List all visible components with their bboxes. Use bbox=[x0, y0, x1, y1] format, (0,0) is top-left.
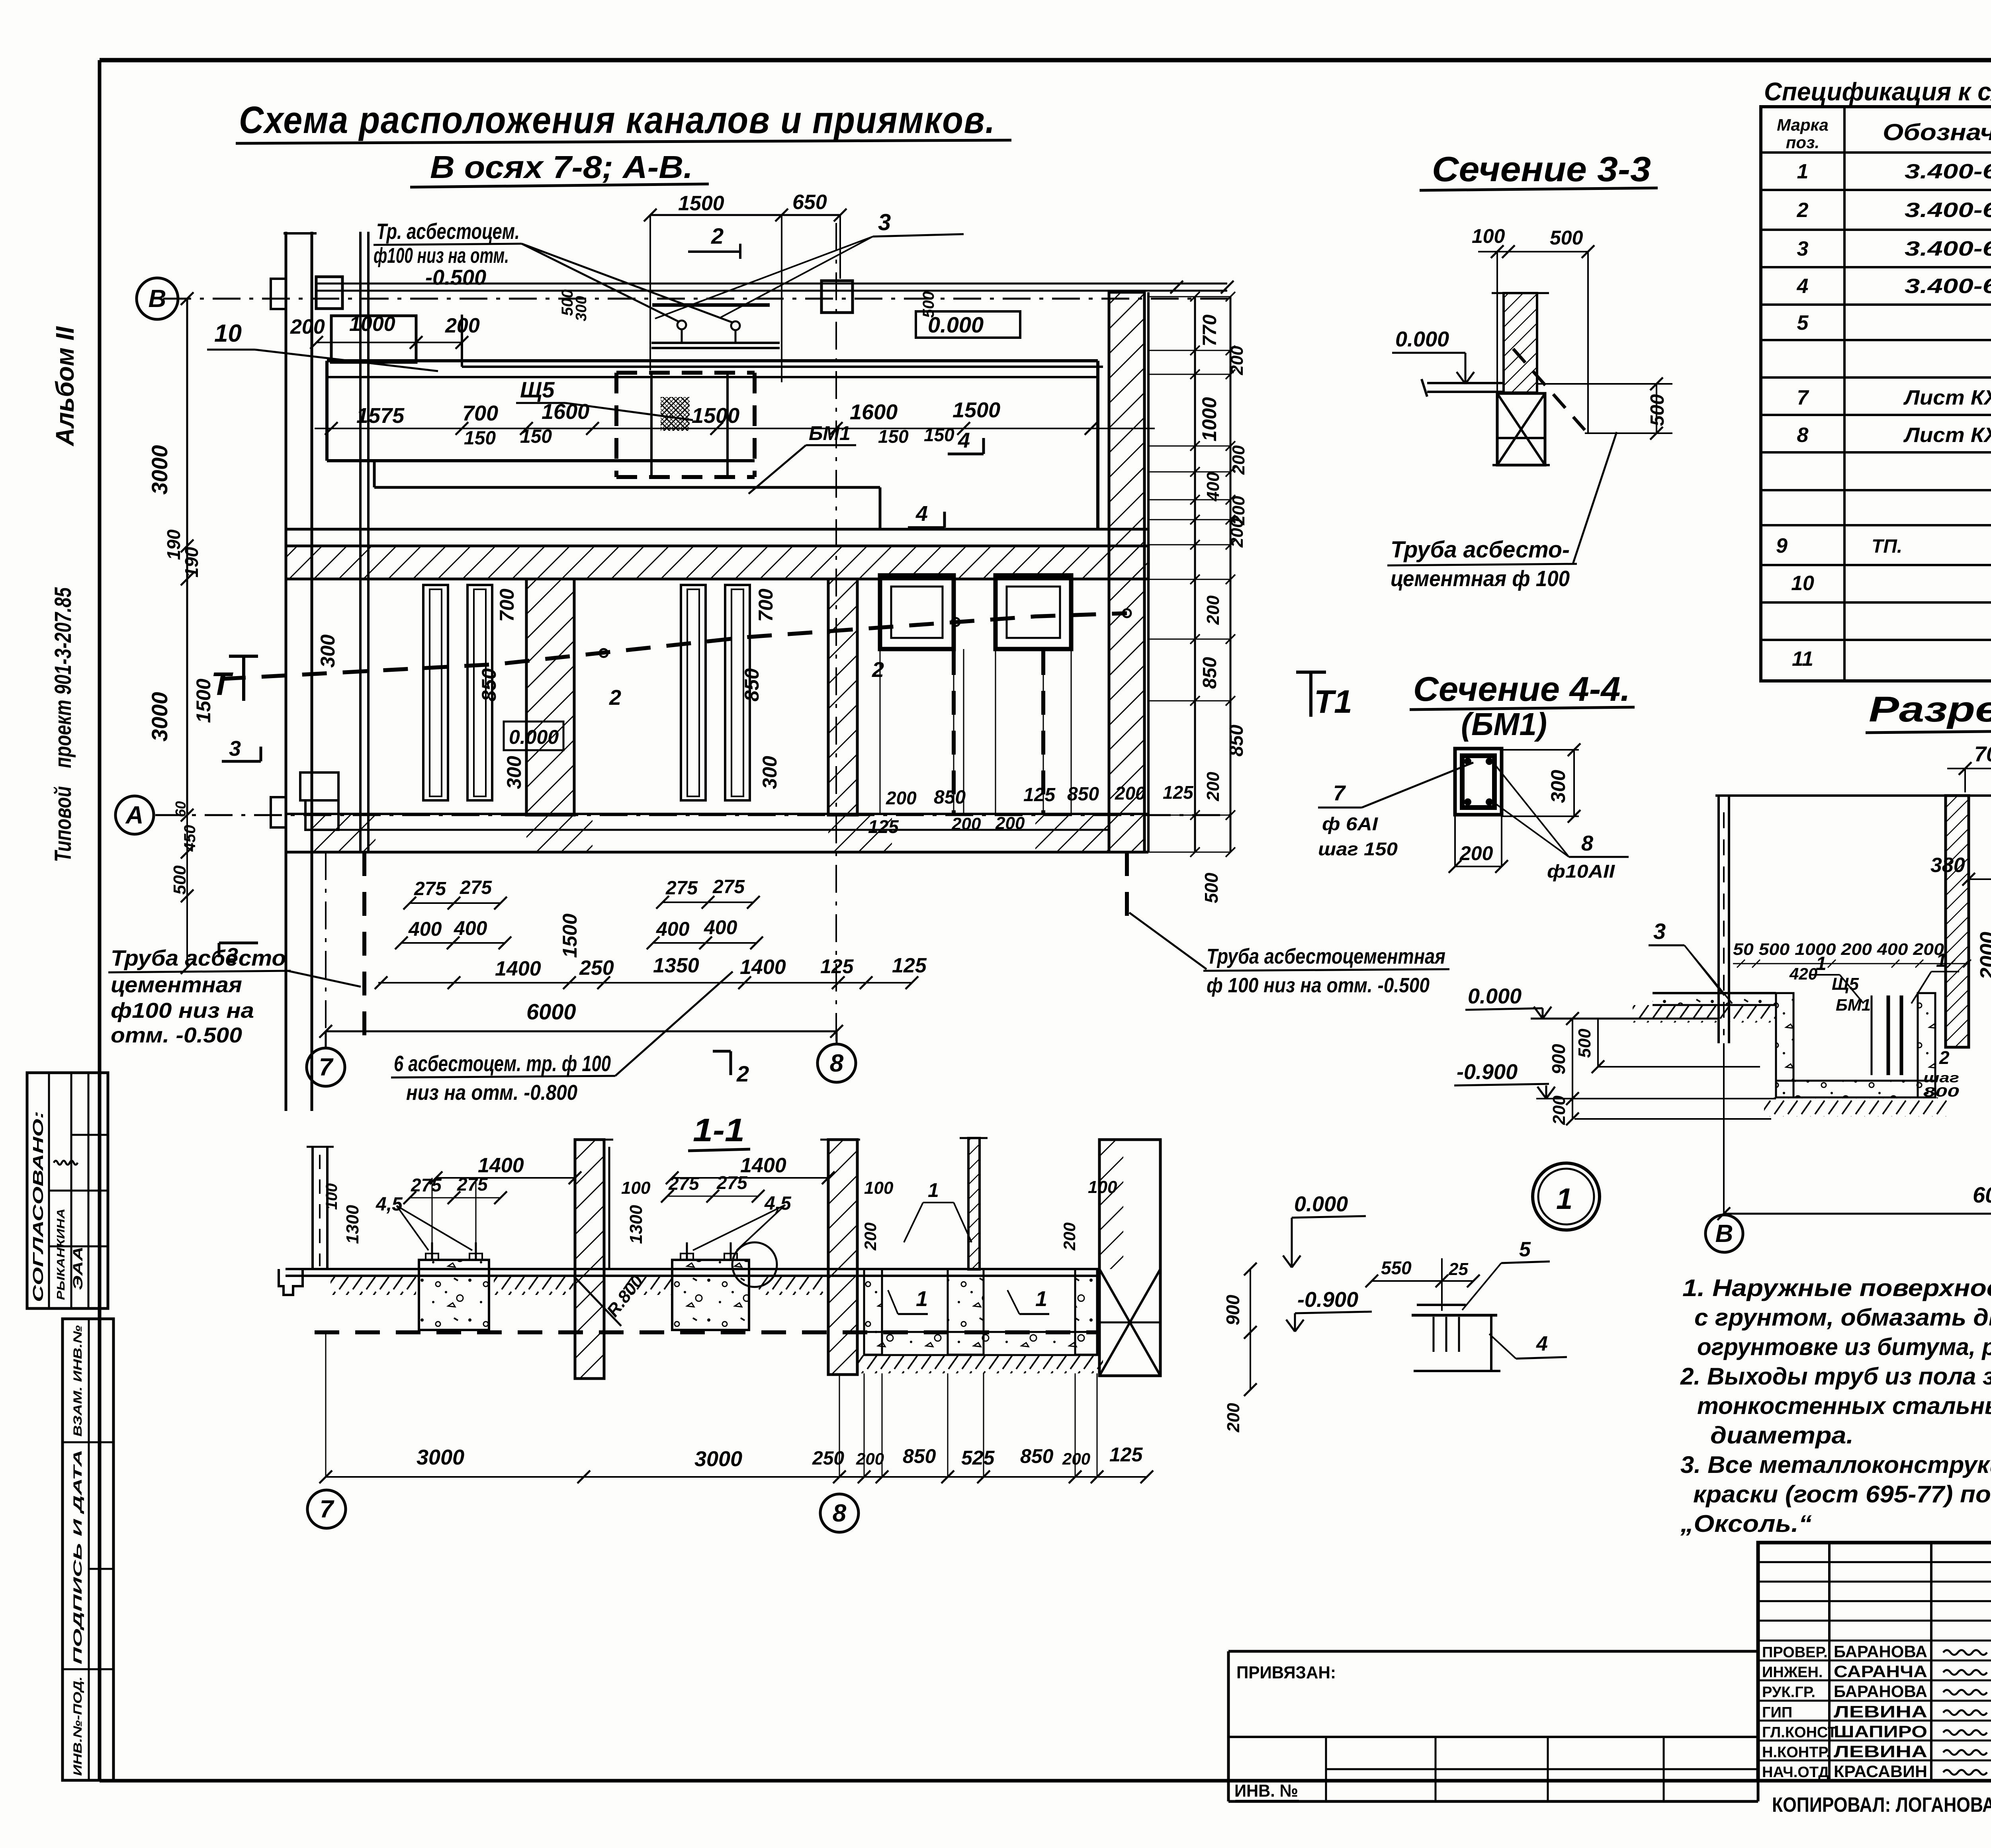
svg-text:СОГЛАСОВАНО:: СОГЛАСОВАНО: bbox=[30, 1111, 46, 1302]
svg-text:200: 200 bbox=[1224, 1403, 1243, 1433]
s11 hatched wall B bbox=[575, 1140, 604, 1379]
svg-text:1500: 1500 bbox=[192, 679, 215, 723]
plan: boxed 0.000 in lower room bbox=[504, 722, 563, 750]
svg-text:ИНВ.№-ПОД.: ИНВ.№-ПОД. bbox=[71, 1676, 84, 1776]
svg-text:700: 700 bbox=[1974, 742, 1991, 766]
svg-text:1: 1 bbox=[916, 1287, 928, 1311]
sec3-3 caption leader bbox=[1573, 432, 1617, 564]
svg-text:ЛЕВИНА: ЛЕВИНА bbox=[1834, 1742, 1927, 1761]
title block outer bbox=[1758, 1543, 1991, 1781]
s11 footing block 1 bbox=[419, 1260, 489, 1330]
s11 ground hatch strips bbox=[331, 1276, 416, 1295]
plan: upper small pit rectangle bbox=[331, 316, 416, 362]
svg-text:Спецификация к схеме расположе: Спецификация к схеме расположения приямк… bbox=[1764, 77, 1991, 106]
svg-text:3000: 3000 bbox=[694, 1447, 742, 1471]
svg-text:500: 500 bbox=[1575, 1029, 1594, 1058]
s11 footing block 2 bbox=[672, 1260, 749, 1330]
svg-text:50 500 1000 200 400 200: 50 500 1000 200 400 200 bbox=[1733, 940, 1944, 958]
svg-text:200: 200 bbox=[290, 315, 325, 338]
svg-text:1350: 1350 bbox=[653, 954, 699, 977]
svg-text:200: 200 bbox=[1060, 1222, 1079, 1251]
svg-text:200: 200 bbox=[1062, 1449, 1090, 1468]
svg-text:10: 10 bbox=[214, 320, 242, 347]
svg-text:450: 450 bbox=[181, 825, 199, 852]
svg-text:2: 2 bbox=[1797, 199, 1809, 222]
plan: pilaster box lower bbox=[305, 800, 338, 830]
title block signature columns bbox=[1828, 1543, 1831, 1781]
plan: interior horizontal wall hatched bbox=[286, 546, 1148, 579]
svg-text:300: 300 bbox=[503, 756, 525, 789]
svg-text:1000: 1000 bbox=[349, 313, 395, 336]
svg-text:отм. -0.500: отм. -0.500 bbox=[111, 1023, 242, 1047]
s11 thin wall D bbox=[968, 1138, 980, 1269]
svg-text:1500: 1500 bbox=[678, 192, 724, 215]
svg-text:700: 700 bbox=[755, 589, 777, 622]
svg-text:ГЛ.КОНСТ: ГЛ.КОНСТ bbox=[1762, 1724, 1837, 1741]
svg-text:150: 150 bbox=[520, 426, 552, 447]
svg-text:3: 3 bbox=[226, 944, 238, 968]
sec4-4 corner bars bbox=[1464, 758, 1471, 765]
plan: pipe right end ticks bbox=[1170, 281, 1183, 293]
plan: right room square pit 1 bbox=[880, 575, 954, 649]
plan: middle dividing wall hatched bbox=[526, 579, 574, 815]
svg-text:400: 400 bbox=[704, 916, 737, 939]
plan: lower-left room channel slots bbox=[423, 585, 448, 800]
svg-text:300: 300 bbox=[317, 634, 339, 668]
svg-text:Обозначение: Обозначение bbox=[1883, 119, 1991, 145]
sec3-3 foundation cross box bbox=[1497, 393, 1545, 465]
svg-text:ЭАА: ЭАА bbox=[70, 1246, 86, 1290]
svg-text:125: 125 bbox=[892, 954, 927, 977]
s11 right vertical dim 900 bbox=[1250, 1269, 1251, 1390]
svg-text:400: 400 bbox=[454, 917, 487, 939]
svg-text:ф10АII: ф10АII bbox=[1547, 861, 1615, 882]
sec3-3 dashed pipe diagonal bbox=[1513, 349, 1585, 430]
svg-text:1575: 1575 bbox=[356, 404, 405, 428]
sheet frame left line bbox=[98, 60, 102, 1781]
svg-text:200: 200 bbox=[951, 814, 981, 834]
svg-text:60: 60 bbox=[172, 801, 189, 817]
plan: vertical ext lines from pits bbox=[880, 649, 881, 814]
plan: bold dashed verticals from pits bbox=[952, 651, 956, 814]
svg-text:8: 8 bbox=[1797, 424, 1809, 447]
svg-text:низ на отм. -0.800: низ на отм. -0.800 bbox=[406, 1081, 577, 1105]
svg-text:1: 1 bbox=[1816, 953, 1827, 974]
svg-text:краски (гост 695-77) по огрунт: краски (гост 695-77) по огрунтовке сурик… bbox=[1693, 1481, 1991, 1508]
sec4-4 beam outline bbox=[1455, 749, 1502, 815]
svg-text:1000: 1000 bbox=[1198, 397, 1220, 441]
svg-text:200: 200 bbox=[1459, 842, 1493, 864]
svg-text:Типовой проект 901-3-207.85: Типовой проект 901-3-207.85 bbox=[50, 587, 76, 862]
svg-text:500: 500 bbox=[1647, 394, 1668, 426]
svg-text:цементная ф 100: цементная ф 100 bbox=[1391, 566, 1570, 591]
svg-text:огрунтовке из битума, растворе: огрунтовке из битума, растворенного в бе… bbox=[1697, 1334, 1991, 1360]
plan: trench dashed polyline bbox=[221, 613, 1127, 679]
svg-text:ШАПИРО: ШАПИРО bbox=[1834, 1722, 1927, 1741]
r22 ground hatch left bbox=[1633, 1005, 1776, 1023]
svg-text:Лист КЖ-21: Лист КЖ-21 bbox=[1903, 386, 1991, 409]
svg-text:9: 9 bbox=[1776, 534, 1788, 557]
r22 left floor slab bbox=[1653, 992, 1776, 994]
svg-text:275: 275 bbox=[665, 878, 698, 899]
detail bracket drawing bbox=[1417, 1304, 1466, 1306]
svg-text:3.400-6/76: 3.400-6/76 bbox=[1905, 160, 1991, 183]
plan: leader to pipe bbox=[615, 972, 733, 1076]
plan: right wall hatched band bbox=[1109, 292, 1144, 852]
svg-text:Тр. асбестоцем.: Тр. асбестоцем. bbox=[376, 219, 520, 244]
plan: right room square pit 2 bbox=[995, 575, 1071, 649]
plan: left wall top tick bbox=[284, 232, 317, 235]
svg-text:10: 10 bbox=[1791, 572, 1814, 595]
svg-text:125: 125 bbox=[820, 955, 854, 978]
s11 detail circle on footing 2 bbox=[732, 1242, 777, 1287]
privyazan box bbox=[1228, 1650, 1758, 1653]
svg-text:125: 125 bbox=[1163, 782, 1194, 803]
svg-text:190: 190 bbox=[181, 547, 202, 577]
svg-text:11: 11 bbox=[1792, 647, 1813, 671]
svg-text:ИНВ. №: ИНВ. № bbox=[1234, 1781, 1298, 1801]
svg-text:7: 7 bbox=[1797, 386, 1809, 409]
svg-text:2: 2 bbox=[711, 223, 724, 248]
svg-text:5: 5 bbox=[1797, 311, 1809, 334]
r22 pit inner bars bbox=[1887, 995, 1890, 1075]
svg-text:900: 900 bbox=[1222, 1295, 1243, 1325]
svg-text:200: 200 bbox=[856, 1449, 884, 1468]
svg-text:3000: 3000 bbox=[147, 445, 172, 495]
plan: leader to right dashed pipe bbox=[1129, 913, 1207, 969]
plan: middle dim string bbox=[315, 428, 1155, 429]
svg-text:1-1: 1-1 bbox=[693, 1112, 745, 1148]
svg-text:0.000: 0.000 bbox=[509, 726, 559, 748]
svg-text:1300: 1300 bbox=[343, 1205, 362, 1244]
svg-text:380: 380 bbox=[1930, 854, 1965, 877]
svg-text:100: 100 bbox=[1088, 1177, 1117, 1197]
svg-text:500: 500 bbox=[1550, 227, 1583, 249]
s11 right wall with cross bbox=[1099, 1140, 1160, 1376]
plan: leader from caption to pipe bbox=[288, 971, 361, 987]
svg-text:САРАНЧА: САРАНЧА bbox=[1834, 1662, 1927, 1681]
svg-text:500: 500 bbox=[920, 291, 937, 318]
title block mini rows bbox=[1758, 1561, 1991, 1563]
svg-text:400: 400 bbox=[656, 918, 690, 940]
spec table grid bbox=[1761, 107, 1991, 681]
svg-text:125: 125 bbox=[868, 816, 899, 837]
svg-text:шаг 150: шаг 150 bbox=[1318, 839, 1398, 859]
svg-text:Схема расположения каналов и п: Схема расположения каналов и приямков. bbox=[239, 99, 995, 141]
svg-text:300: 300 bbox=[1547, 770, 1569, 803]
svg-text:420: 420 bbox=[1789, 964, 1817, 983]
svg-text:РУК.ГР.: РУК.ГР. bbox=[1762, 1684, 1815, 1701]
svg-text:900: 900 bbox=[1548, 1044, 1569, 1074]
s11 left curb shape bbox=[279, 1269, 303, 1295]
svg-text:1600: 1600 bbox=[542, 400, 589, 424]
svg-text:200: 200 bbox=[445, 314, 480, 337]
svg-text:100: 100 bbox=[1472, 225, 1505, 247]
plan: crosshatch patch bbox=[661, 397, 690, 431]
svg-text:0.000: 0.000 bbox=[1468, 984, 1522, 1008]
title block signature rows bbox=[1758, 1660, 1991, 1662]
svg-text:100: 100 bbox=[323, 1183, 340, 1210]
plan: upper room outline bbox=[461, 315, 463, 367]
plan: bold dashed vertical right bbox=[1125, 852, 1129, 916]
plan: pipe caption leaders bbox=[522, 244, 679, 322]
plan: bottom wall band bbox=[286, 813, 1148, 815]
svg-text:БАРАНОВА: БАРАНОВА bbox=[1834, 1682, 1927, 1701]
svg-text:ГИП: ГИП bbox=[1762, 1704, 1792, 1721]
plan: axis A dash-dot line bbox=[155, 814, 1230, 816]
svg-text:4: 4 bbox=[1536, 1332, 1548, 1355]
plan: left outer vertical dim line bbox=[186, 299, 188, 815]
svg-text:300: 300 bbox=[573, 296, 590, 321]
svg-text:500: 500 bbox=[1201, 872, 1222, 903]
svg-text:150: 150 bbox=[464, 428, 496, 449]
svg-text:275: 275 bbox=[712, 876, 745, 898]
r22 left wall bbox=[1717, 796, 1720, 1043]
svg-text:125: 125 bbox=[1023, 784, 1056, 806]
svg-text:В: В bbox=[1715, 1220, 1733, 1248]
svg-text:диаметра.: диаметра. bbox=[1710, 1422, 1854, 1449]
svg-text:РЫКАНКИНА: РЫКАНКИНА bbox=[55, 1209, 67, 1300]
svg-text:КОПИРОВАЛ: ЛОГАНОВА: КОПИРОВАЛ: ЛОГАНОВА bbox=[1772, 1793, 1991, 1817]
plan: vertical pipe line bbox=[359, 232, 362, 852]
svg-text:ПРИВЯЗАН:: ПРИВЯЗАН: bbox=[1236, 1663, 1336, 1682]
svg-text:НАЧ.ОТД: НАЧ.ОТД bbox=[1762, 1764, 1829, 1781]
svg-text:200: 200 bbox=[1227, 346, 1247, 375]
svg-text:В: В bbox=[149, 285, 166, 313]
svg-text:БМ1: БМ1 bbox=[1836, 995, 1871, 1014]
svg-text:400: 400 bbox=[1203, 472, 1223, 502]
s11 floor double line bbox=[286, 1268, 1099, 1270]
plan: axis circle A bbox=[115, 796, 154, 834]
svg-text:250: 250 bbox=[579, 956, 614, 980]
svg-text:1500: 1500 bbox=[559, 913, 581, 958]
svg-text:Труба асбесто: Труба асбесто bbox=[111, 945, 286, 970]
svg-text:2: 2 bbox=[1939, 1047, 1950, 1068]
signature squiggle bbox=[54, 1161, 78, 1165]
svg-text:7: 7 bbox=[320, 1496, 334, 1523]
plan: left wall double line bbox=[285, 232, 288, 1111]
svg-text:-0.900: -0.900 bbox=[1297, 1288, 1358, 1312]
svg-text:ИНЖЕН.: ИНЖЕН. bbox=[1762, 1664, 1823, 1681]
stamp box inv bbox=[63, 1319, 113, 1780]
sec3-3 wall column hatched bbox=[1504, 293, 1537, 393]
svg-text:700: 700 bbox=[496, 589, 518, 622]
plan: pipe middle box bbox=[821, 281, 853, 313]
svg-text:2: 2 bbox=[872, 658, 884, 682]
svg-text:200: 200 bbox=[1203, 772, 1223, 802]
svg-text:0.000: 0.000 bbox=[1294, 1192, 1348, 1216]
plan: axis circle 7 bbox=[325, 1031, 327, 1048]
svg-text:1: 1 bbox=[1936, 950, 1947, 971]
svg-text:1500: 1500 bbox=[952, 398, 1000, 422]
svg-text:шаг: шаг bbox=[1923, 1070, 1959, 1085]
svg-text:850: 850 bbox=[478, 668, 500, 702]
svg-text:Труба асбесто-: Труба асбесто- bbox=[1391, 537, 1570, 563]
svg-text:поз.: поз. bbox=[1786, 133, 1819, 152]
plan: axis circle 8 bbox=[836, 1031, 838, 1044]
svg-text:-0.900: -0.900 bbox=[1457, 1060, 1518, 1084]
svg-text:3: 3 bbox=[878, 209, 891, 235]
svg-text:850: 850 bbox=[934, 787, 966, 808]
svg-text:Марка: Марка bbox=[1777, 115, 1829, 134]
svg-text:5: 5 bbox=[1519, 1238, 1531, 1261]
svg-text:850: 850 bbox=[1226, 725, 1247, 757]
svg-text:800: 800 bbox=[1923, 1085, 1959, 1100]
svg-text:100: 100 bbox=[864, 1178, 894, 1198]
sec3-3 floor double line bbox=[1427, 382, 1504, 384]
svg-text:6000: 6000 bbox=[526, 999, 576, 1024]
svg-text:100: 100 bbox=[621, 1178, 651, 1198]
svg-text:200: 200 bbox=[1203, 595, 1223, 625]
svg-text:6 асбестоцем. тр. ф 100: 6 асбестоцем. тр. ф 100 bbox=[394, 1051, 611, 1076]
stamp box soglasovano bbox=[27, 1073, 108, 1308]
svg-text:ф 100 низ на отм. -0.500: ф 100 низ на отм. -0.500 bbox=[1207, 974, 1430, 997]
svg-text:4: 4 bbox=[915, 502, 928, 526]
svg-text:БАРАНОВА: БАРАНОВА bbox=[1834, 1642, 1927, 1661]
svg-text:3.400-6/76: 3.400-6/76 bbox=[1905, 275, 1991, 298]
svg-text:ПРОВЕР.: ПРОВЕР. bbox=[1762, 1644, 1828, 1661]
svg-text:2. Выходы труб из пола защитит: 2. Выходы труб из пола защитить отрезкам… bbox=[1680, 1363, 1991, 1390]
node detail circle 1 bbox=[1533, 1163, 1600, 1230]
svg-text:850: 850 bbox=[741, 668, 763, 702]
svg-text:ф 6АI: ф 6АI bbox=[1322, 814, 1378, 834]
svg-text:„Оксоль.“: „Оксоль.“ bbox=[1680, 1510, 1812, 1537]
svg-text:(БМ1): (БМ1) bbox=[1461, 706, 1547, 742]
svg-text:8: 8 bbox=[830, 1050, 844, 1077]
svg-text:Лист КЖ-21: Лист КЖ-21 bbox=[1903, 424, 1991, 447]
plan: trench double line below pipe bbox=[651, 342, 780, 344]
svg-text:ф100 низ на отм.: ф100 низ на отм. bbox=[374, 244, 509, 268]
svg-text:150: 150 bbox=[924, 424, 954, 445]
svg-text:3.400-6/76: 3.400-6/76 bbox=[1905, 237, 1991, 260]
svg-text:Н.КОНТР.: Н.КОНТР. bbox=[1762, 1744, 1831, 1761]
svg-text:ПОДПИСЬ И ДАТА: ПОДПИСЬ И ДАТА bbox=[71, 1449, 84, 1664]
svg-text:25: 25 bbox=[1448, 1259, 1468, 1279]
svg-text:Разрез 2-2: Разрез 2-2 bbox=[1869, 690, 1991, 729]
svg-text:1300: 1300 bbox=[626, 1205, 646, 1244]
r22 pit ground hatch below bbox=[1764, 1097, 1947, 1117]
svg-text:3.400-6/76: 3.400-6/76 bbox=[1905, 199, 1991, 222]
svg-text:3: 3 bbox=[229, 737, 241, 761]
svg-text:3. Все металлоконструкции окра: 3. Все металлоконструкции окрасить 2 сло… bbox=[1680, 1451, 1991, 1478]
plan: machine room inner rect bbox=[327, 359, 1098, 362]
plan: bottom wall hatch patches bbox=[312, 815, 376, 852]
s11 hatched wall C bbox=[828, 1140, 857, 1375]
s11 axis circle 7 bbox=[307, 1490, 346, 1528]
svg-text:850: 850 bbox=[1067, 784, 1099, 805]
r22 pit walls stippled bbox=[1776, 993, 1793, 1097]
svg-text:850: 850 bbox=[903, 1445, 936, 1467]
svg-text:Сечение 4-4.: Сечение 4-4. bbox=[1413, 670, 1630, 708]
svg-text:Щ5: Щ5 bbox=[520, 377, 555, 402]
s11 pits ground hatch below bbox=[856, 1355, 1103, 1373]
sec3-3 top dim line bbox=[1478, 251, 1588, 252]
svg-text:цементная: цементная bbox=[111, 972, 242, 997]
svg-text:150: 150 bbox=[878, 426, 909, 447]
plan: dim line upper bbox=[317, 342, 462, 343]
svg-text:0.000: 0.000 bbox=[1395, 327, 1449, 351]
r22 level line -0.900 bbox=[1536, 1098, 1776, 1099]
svg-text:200: 200 bbox=[1549, 1095, 1569, 1125]
plan: right wall outer line bbox=[1143, 292, 1146, 852]
svg-text:200: 200 bbox=[886, 788, 917, 808]
svg-text:4: 4 bbox=[1797, 275, 1809, 298]
svg-text:Альбом II: Альбом II bbox=[51, 326, 79, 447]
s11 footing 2 bolts bbox=[686, 1242, 688, 1260]
svg-text:4: 4 bbox=[958, 428, 970, 452]
svg-text:275: 275 bbox=[460, 877, 492, 898]
svg-text:6000: 6000 bbox=[1973, 1182, 1991, 1207]
svg-text:2: 2 bbox=[609, 686, 621, 710]
svg-text:1400: 1400 bbox=[495, 957, 541, 980]
r22 level line below slab bbox=[1574, 1118, 1771, 1120]
svg-text:1. Наружные поверхности приямк: 1. Наружные поверхности приямков, соприк… bbox=[1682, 1275, 1991, 1301]
plan: axis 7 vertical dash-dot bbox=[325, 852, 327, 1043]
s11 bold dashed line bbox=[315, 1330, 1097, 1334]
plan: pipe riser circles bbox=[677, 321, 686, 329]
s11 ext lines pits to dim bbox=[864, 1373, 865, 1477]
svg-text:тонкостенных стальных труб соо: тонкостенных стальных труб соответствующ… bbox=[1697, 1392, 1991, 1419]
plan: right outer vertical dim lines bbox=[1194, 297, 1196, 852]
plan: shchit dashed rectangle bbox=[616, 371, 755, 375]
plan: axis 8 vertical dash-dot bbox=[835, 223, 837, 1043]
r22 level line -0.500 trench bbox=[1599, 1066, 1760, 1068]
plan: pilaster box bbox=[300, 772, 338, 800]
svg-text:7: 7 bbox=[319, 1054, 334, 1081]
s11 footing 1 bolts bbox=[431, 1242, 433, 1260]
svg-text:8: 8 bbox=[1581, 831, 1593, 855]
svg-text:ф100 низ на: ф100 низ на bbox=[111, 999, 254, 1023]
plan: wall box at axis A bbox=[271, 797, 286, 827]
svg-text:275: 275 bbox=[457, 1174, 488, 1195]
svg-text:1: 1 bbox=[1797, 160, 1809, 183]
s11 right pits bbox=[864, 1269, 882, 1355]
svg-text:с грунтом, обмазать двумя слоя: с грунтом, обмазать двумя слоями горячег… bbox=[1694, 1304, 1991, 1331]
plan: label 0.000 boxed bbox=[916, 311, 1020, 338]
svg-text:525: 525 bbox=[961, 1447, 995, 1469]
svg-text:1600: 1600 bbox=[850, 400, 898, 424]
svg-text:400: 400 bbox=[408, 918, 442, 940]
plan: pipe end box left bbox=[316, 277, 342, 309]
r22 center wall hatched bbox=[1946, 796, 1969, 1047]
svg-text:275: 275 bbox=[414, 878, 446, 900]
svg-text:4,5: 4,5 bbox=[376, 1194, 403, 1215]
svg-text:2000: 2000 bbox=[1976, 932, 1991, 980]
r22 floor level line left bbox=[1531, 1018, 1719, 1020]
svg-text:300: 300 bbox=[759, 756, 781, 789]
sheet frame bottom line bbox=[100, 1779, 1991, 1783]
svg-text:850: 850 bbox=[1020, 1445, 1054, 1467]
svg-text:3: 3 bbox=[1653, 919, 1666, 944]
svg-text:ТП.: ТП. bbox=[1872, 536, 1902, 557]
svg-text:3000: 3000 bbox=[417, 1445, 464, 1469]
svg-text:850: 850 bbox=[1199, 657, 1220, 689]
svg-text:650: 650 bbox=[792, 191, 827, 214]
svg-text:Щ5: Щ5 bbox=[1832, 974, 1859, 994]
svg-text:В осях 7-8; А-В.: В осях 7-8; А-В. bbox=[430, 149, 693, 185]
svg-text:ВЗАМ. ИНВ.№: ВЗАМ. ИНВ.№ bbox=[71, 1325, 84, 1437]
plan: top pipe double line bbox=[317, 283, 1227, 285]
s11 axis circle 8 bbox=[820, 1494, 859, 1532]
svg-text:Труба асбестоцементная: Труба асбестоцементная bbox=[1207, 945, 1445, 968]
svg-text:3: 3 bbox=[1797, 237, 1809, 260]
svg-text:1500: 1500 bbox=[692, 404, 739, 428]
svg-text:200: 200 bbox=[1227, 518, 1247, 548]
plan: section mark T1 right bbox=[1296, 671, 1326, 674]
r22 top structure line bbox=[1715, 794, 1991, 797]
r22 axis line B vertical bbox=[1723, 1043, 1725, 1214]
svg-text:-0.500: -0.500 bbox=[425, 266, 486, 289]
